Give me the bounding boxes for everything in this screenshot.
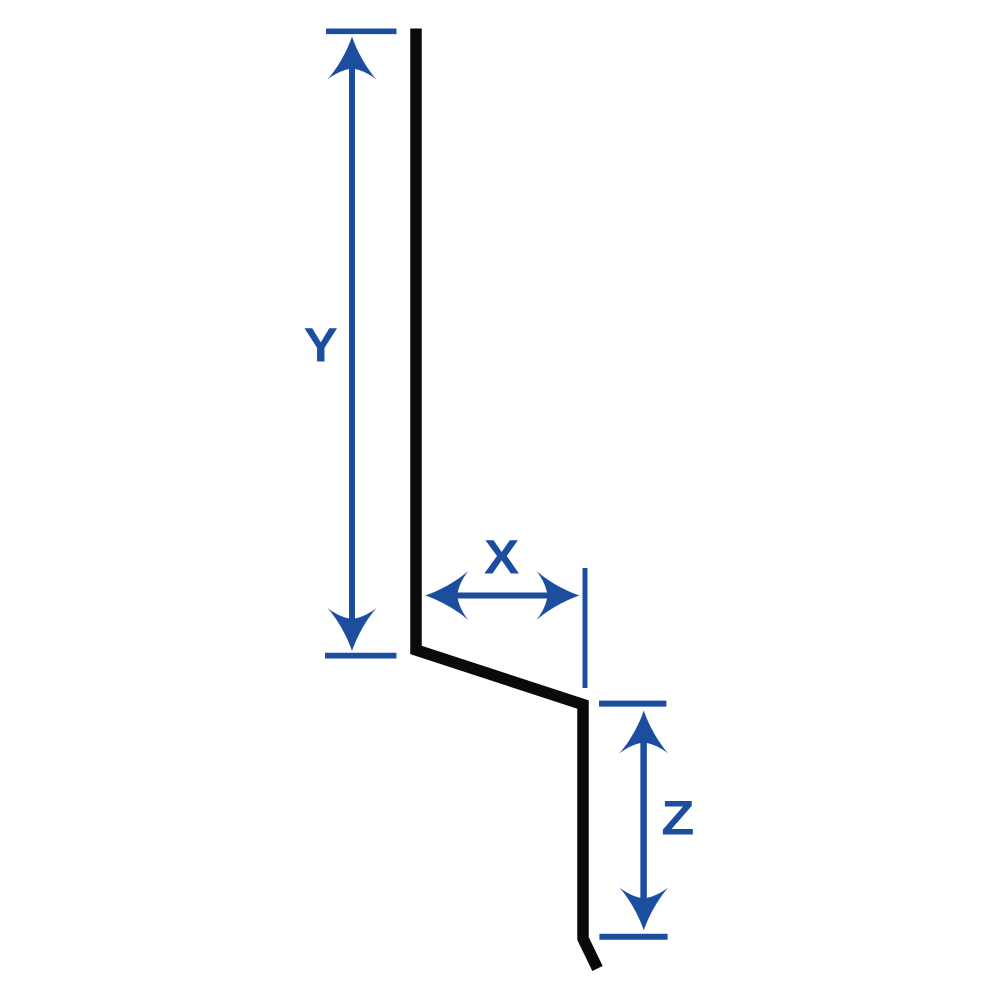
dimension Z arrowhead up <box>619 711 668 754</box>
dimension Y bottom tick <box>325 653 397 659</box>
dimension X right extension tick <box>583 568 588 688</box>
dimension Z top tick <box>599 701 666 707</box>
svg-text:X: X <box>484 530 520 584</box>
dimension Y arrowhead down <box>328 608 377 651</box>
dimension X arrowhead right <box>537 571 580 620</box>
dimension Y shaft <box>349 50 355 638</box>
dimension Y top tick <box>326 28 397 34</box>
dimension Z shaft <box>640 722 647 918</box>
dimension Z arrowhead down <box>619 887 668 930</box>
svg-text:Y: Y <box>304 318 338 372</box>
dimension Y arrowhead up <box>328 37 377 80</box>
dimension Z bottom tick <box>599 934 667 940</box>
dimension X shaft <box>435 593 570 599</box>
profile line (trim cross-section) <box>416 29 598 969</box>
dimension X arrowhead left <box>425 571 468 620</box>
svg-text:Z: Z <box>661 791 694 844</box>
